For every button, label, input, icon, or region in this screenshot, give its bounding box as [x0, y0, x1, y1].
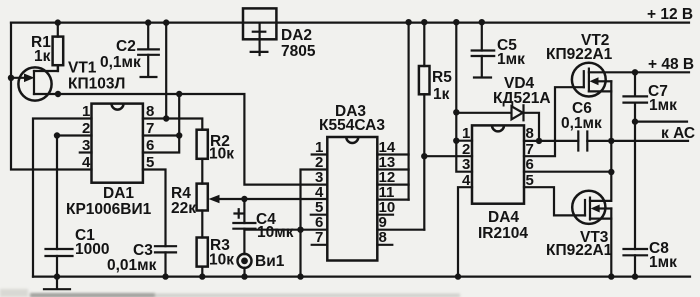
- wire +5 riser to pin8: [165, 23, 167, 119]
- svg-text:10к: 10к: [209, 146, 234, 163]
- wire DA3 pin8 stub: [377, 244, 392, 246]
- DA1 pin numbers right: [146, 103, 154, 171]
- diode VD4: [456, 75, 550, 141]
- svg-text:КП922А1: КП922А1: [546, 242, 613, 259]
- capacitor C7: [624, 72, 678, 121]
- IC DA1 555 timer: [66, 104, 152, 218]
- svg-text:0,1мк: 0,1мк: [561, 115, 602, 132]
- svg-text:КП922А1: КП922А1: [546, 46, 613, 63]
- svg-text:0,1мк: 0,1мк: [100, 54, 141, 71]
- wire DA1 pin2: [57, 134, 92, 136]
- node pin2 dot: [54, 132, 60, 138]
- node R4 wiper / C4 dot: [241, 196, 247, 202]
- capacitor C4 polarized: [233, 199, 293, 254]
- resistor R1: [31, 19, 63, 71]
- resistor R5: [419, 19, 452, 230]
- node diode/pin8 dot: [536, 138, 542, 144]
- resistor R3: [197, 237, 235, 280]
- svg-text:1мк: 1мк: [649, 254, 677, 271]
- wire left gate/reset drop: [11, 23, 92, 170]
- wire DA4 pin7 to VT2 gate: [524, 87, 584, 156]
- resistor R4 trimmer: [171, 184, 327, 217]
- svg-text:К554СА3: К554СА3: [319, 117, 385, 134]
- node C3 rail dot: [162, 273, 168, 279]
- DA4 pin numbers left: [462, 125, 471, 189]
- DA1 pin numbers left: [82, 103, 91, 171]
- capacitor C2: [100, 19, 159, 77]
- svg-text:DA2: DA2: [281, 27, 312, 44]
- svg-text:1к: 1к: [433, 86, 450, 103]
- svg-text:8: 8: [526, 125, 534, 142]
- wire +5V/+12V top rail: [11, 22, 689, 24]
- transistor VT3: [546, 172, 615, 280]
- svg-text:DA1: DA1: [103, 185, 134, 202]
- node gate junction dot: [8, 75, 14, 81]
- DA4 pin numbers right: [526, 125, 534, 189]
- wire DA1 pin5 to C3: [143, 170, 166, 247]
- capacitor C5: [472, 19, 525, 78]
- DA3 pin numbers left: [315, 139, 324, 246]
- svg-text:C2: C2: [116, 38, 136, 55]
- wire DA4 pin2 input: [424, 155, 472, 157]
- wire DA3 supply pins 14-11: [377, 155, 408, 200]
- svg-text:10мк: 10мк: [257, 224, 294, 241]
- svg-text:10к: 10к: [209, 252, 234, 269]
- svg-text:VT1: VT1: [68, 60, 97, 77]
- node VS output dot: [608, 138, 614, 144]
- transistor VT2: [546, 32, 689, 172]
- svg-text:8: 8: [379, 229, 387, 246]
- wire sawtooth node row: [58, 94, 327, 185]
- wire DA3 pin2/pin6 ground bracket: [301, 170, 328, 277]
- capacitor C3: [107, 242, 176, 277]
- svg-text:7805: 7805: [281, 43, 316, 60]
- wire DA3 pin6 row: [245, 229, 328, 231]
- wire DA1 pin3 stub: [80, 151, 92, 153]
- wire R4 to R3: [201, 211, 203, 238]
- resistor R2: [197, 130, 235, 163]
- wire DA3 pin9 output: [377, 229, 424, 231]
- wire DA4 pin5 to VT3 gate: [524, 187, 585, 215]
- wire DA3 pin5 stub: [311, 214, 328, 216]
- node +48 rail dot: [632, 69, 638, 75]
- wire DA3 pin10 stub: [377, 214, 393, 216]
- capacitor C8: [624, 240, 678, 280]
- svg-text:КП103Л: КП103Л: [68, 76, 125, 93]
- wire DA1 pin8 row to R2: [143, 119, 202, 130]
- svg-text:4: 4: [82, 154, 91, 171]
- wire C7 to C8 column: [634, 122, 636, 249]
- wire DA3 pin1 stub: [312, 153, 328, 155]
- ground symbol: [44, 277, 70, 290]
- node C1 rail dot: [54, 273, 60, 279]
- scan shadow bottom: [0, 289, 460, 297]
- svg-text:0,01мк: 0,01мк: [107, 257, 157, 274]
- svg-text:к АС: к АС: [661, 125, 695, 142]
- capacitor C1: [46, 136, 110, 277]
- wire DA1 pin7/pin6 bracket: [143, 136, 179, 153]
- wire DA4 pin4 to ground: [458, 187, 472, 276]
- svg-text:3: 3: [462, 156, 470, 173]
- node R5/DA4 pin2 dot: [421, 153, 427, 159]
- node VT1 source / C1 dot: [55, 91, 61, 97]
- IC DA3 comparator: [319, 103, 385, 261]
- node C7/C8 output dot: [632, 118, 638, 124]
- svg-text:КР1006ВИ1: КР1006ВИ1: [66, 201, 152, 218]
- wire DA4 pin8 stub: [524, 140, 539, 142]
- svg-text:6: 6: [526, 156, 534, 173]
- svg-text:R5: R5: [432, 69, 452, 86]
- node pin7 riser dot: [176, 91, 182, 97]
- regulator DA2: [243, 8, 316, 60]
- svg-text:IR2104: IR2104: [478, 225, 528, 242]
- svg-text:1000: 1000: [75, 241, 109, 258]
- transistor VT1: [11, 60, 125, 101]
- wire to speaker top: [635, 120, 687, 122]
- ground rail bottom: [33, 276, 690, 278]
- svg-text:КД521А: КД521А: [493, 90, 551, 107]
- svg-text:+ 12 В: + 12 В: [647, 6, 693, 23]
- svg-text:1к: 1к: [34, 48, 51, 65]
- svg-text:Ви1: Ви1: [255, 253, 285, 270]
- wire DA1 pin1 to ground rail: [33, 119, 92, 277]
- microphone jack Bи1: [238, 253, 285, 280]
- svg-text:1: 1: [462, 125, 470, 142]
- capacitor C6 bootstrap: [539, 100, 688, 151]
- wire DA3 pin7 stub: [312, 244, 328, 246]
- wire R2 to R4: [201, 159, 203, 184]
- svg-text:1мк: 1мк: [497, 51, 525, 68]
- svg-text:22к: 22к: [171, 200, 196, 217]
- IC DA4 driver: [472, 125, 528, 242]
- wire DA4 pin6 to VS node: [524, 171, 611, 173]
- svg-text:+ 48 В: + 48 В: [648, 56, 694, 73]
- svg-text:7: 7: [315, 229, 323, 246]
- DA3 pin numbers right: [379, 139, 396, 246]
- svg-text:DA4: DA4: [488, 209, 519, 226]
- wire +12 riser to DA4 pin1/pin3: [456, 22, 472, 172]
- wire DA4 pin1: [456, 140, 472, 142]
- svg-text:1мк: 1мк: [649, 97, 677, 114]
